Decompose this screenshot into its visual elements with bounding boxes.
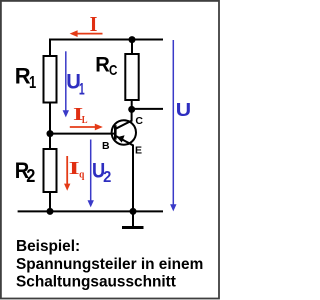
transistor emitter arrow [117,135,125,142]
wire emitter down [132,145,134,213]
svg-text:Beispiel:: Beispiel: [16,238,80,255]
svg-text:2: 2 [26,166,35,186]
resistor RC [125,54,138,100]
wire bottom rail [18,210,163,212]
node bottom-left (junction dot) [47,208,54,215]
wire R1 to node A [49,103,51,135]
wire top rail [50,39,163,41]
voltage arrow U [170,40,176,211]
svg-text:C: C [135,115,143,127]
transistor emitter lead [116,136,133,145]
node A (junction dot R1/R2/base) [47,130,54,137]
wire node A to R2 [49,134,51,150]
ground [122,211,144,227]
current arrow IL [70,124,103,131]
wire RC bottom stub [131,100,133,111]
resistor R2 [44,149,57,192]
current arrow Iq [64,156,70,191]
node top (junction dot) [129,36,136,43]
node collector (junction dot) [128,106,135,113]
border frame [1,1,219,299]
current arrow I [70,30,103,37]
svg-text:I: I [90,12,98,36]
svg-text:q: q [79,168,85,180]
svg-text:E: E [135,145,142,157]
transistor base bar [114,125,117,140]
wire R2 to bottom rail [49,191,51,212]
svg-text:L: L [82,114,88,126]
voltage arrow U2 [88,140,94,208]
svg-text:Spannungsteiler in einem: Spannungsteiler in einem [16,256,203,273]
resistor RC stub top [131,40,133,55]
svg-text:Schaltungsausschnitt: Schaltungsausschnitt [16,274,176,291]
wire left column top [49,39,51,57]
wire collector to right [132,108,163,110]
transistor Q1 circle [112,120,136,144]
wire base [50,133,115,135]
svg-text:1: 1 [29,72,36,92]
transistor collector lead [116,109,132,129]
resistor R1 [44,56,57,103]
node bottom-emitter (junction dot) [130,208,137,215]
svg-text:U: U [176,99,191,120]
voltage arrow U1 [63,51,69,117]
svg-text:B: B [102,140,110,152]
svg-text:C: C [109,62,118,79]
svg-text:1: 1 [79,80,85,98]
svg-text:2: 2 [103,169,111,186]
